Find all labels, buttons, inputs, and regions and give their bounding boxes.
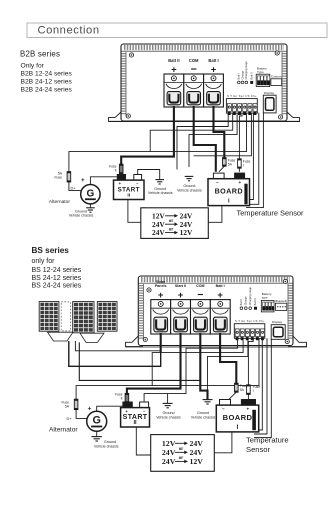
label Fuse II — [109, 165, 117, 173]
label polarity BOARD — [216, 180, 242, 185]
svg-text:Batt II: Batt II — [253, 298, 257, 305]
wire fuse I to BOARD + (BS) — [247, 394, 249, 399]
wire COM thick to ground (BS) — [200, 333, 207, 400]
svg-text:Batt I: Batt I — [237, 73, 241, 80]
svg-text:−: − — [143, 409, 146, 414]
svg-text:24V: 24V — [190, 448, 204, 457]
wire Start II + thick to fuse II — [127, 333, 181, 393]
wire display cable — [246, 113, 263, 208]
device BS solar charger unit — [126, 276, 308, 347]
svg-text:Vehicle chassis: Vehicle chassis — [177, 189, 202, 193]
label Ground Vehicle chassis (START I) — [148, 187, 173, 195]
svg-text:I: I — [253, 389, 254, 393]
svg-text:B2B 24-24 series: B2B 24-24 series — [21, 87, 73, 94]
LED indicators — [238, 81, 254, 84]
LED indicators (BS) — [240, 307, 257, 310]
wire fuse to D+ alternator (BS) — [76, 410, 87, 419]
svg-text:I: I — [237, 424, 239, 431]
svg-text:COM: COM — [189, 58, 199, 63]
svg-text:+: + — [247, 406, 250, 411]
svg-text:Fuse: Fuse — [253, 385, 261, 389]
device B2B charger unit — [109, 44, 301, 122]
svg-text:S T Gn Syn I/S Ch+: S T Gn Syn I/S Ch+ — [235, 319, 265, 323]
ground START I (vehicle chassis) — [155, 180, 164, 184]
wire START to voltage table — [128, 200, 141, 223]
wire temp sensor wire a — [248, 113, 253, 200]
svg-text:Charge: Charge — [240, 70, 244, 79]
label terminals Solar Panels / Start II / COM / Batt I — [155, 280, 225, 301]
svg-text:5A: 5A — [240, 388, 245, 392]
wire alternator ground stem — [89, 204, 91, 208]
wire START minus to ground I — [138, 170, 160, 180]
svg-text:Alternator: Alternator — [49, 199, 71, 205]
svg-text:Connection: Connection — [38, 25, 100, 37]
svg-text:BS 12-24 series: BS 12-24 series — [32, 267, 82, 274]
alternator G (B2B) (generator G) — [81, 185, 100, 204]
fuse F-alt 5A — [67, 172, 71, 182]
svg-text:Display: Display — [264, 91, 275, 95]
wire solar plus to terminal — [69, 334, 161, 366]
ground alternator (vehicle chassis) — [86, 208, 95, 212]
ground COM chassis (vehicle chassis) — [185, 176, 194, 180]
svg-text:12V: 12V — [162, 439, 176, 448]
svg-text:12V: 12V — [180, 228, 193, 237]
svg-text:Vehicle chassis: Vehicle chassis — [148, 191, 173, 195]
svg-text:Fuse: Fuse — [243, 159, 251, 163]
ground START (BS) (vehicle chassis) — [163, 403, 173, 407]
label Ground Vehicle chassis (START (BS)) — [156, 411, 181, 419]
solar panel P3 — [97, 302, 117, 332]
label polarity START (BS) — [125, 409, 146, 414]
label Ground Vehicle chassis (COM chassis (BS)) — [191, 411, 216, 419]
battery BOARD I — [208, 173, 250, 205]
svg-text:Batt I: Batt I — [216, 284, 225, 288]
svg-text:BOARD: BOARD — [215, 187, 243, 196]
svg-text:START: START — [118, 186, 140, 193]
svg-text:12V: 12V — [190, 457, 204, 466]
svg-text:Vehicle chassis: Vehicle chassis — [191, 415, 216, 419]
label B2B series list — [20, 50, 72, 94]
label BS series list — [32, 246, 82, 290]
solar panel P2 — [73, 302, 94, 333]
svg-text:Type: Type — [257, 70, 264, 74]
wire strip pin3 to ground COM (BS) — [208, 338, 248, 390]
svg-text:Charge: Charge — [244, 296, 248, 305]
svg-text:Fuse: Fuse — [54, 176, 62, 180]
wire strip pin1 to ground (BS) — [168, 338, 238, 393]
label Fuse 5A (board) — [228, 158, 236, 166]
wire fuse 5A diag to BOARD (BS) — [229, 392, 236, 399]
terminal block Batt II — [164, 74, 184, 107]
svg-text:Vehicle chassis: Vehicle chassis — [94, 445, 119, 449]
solar panel P1 — [39, 302, 59, 332]
junction box solar A — [48, 332, 74, 341]
wire BOARD to voltage table — [208, 206, 222, 223]
svg-text:Batt I: Batt I — [239, 299, 243, 306]
wire START to voltage table (BS) — [136, 427, 150, 455]
svg-text:Start II: Start II — [175, 284, 186, 288]
svg-text:−: − — [216, 180, 219, 185]
svg-text:Vehicle chassis: Vehicle chassis — [69, 214, 94, 218]
svg-text:I: I — [243, 163, 244, 167]
svg-text:24V: 24V — [162, 448, 176, 457]
terminal block Batt I (BS) — [210, 300, 230, 334]
label Fuse I — [243, 159, 251, 167]
svg-text:Batt II: Batt II — [249, 72, 253, 79]
svg-text:Sensor: Sensor — [246, 445, 271, 454]
svg-text:D+: D+ — [67, 416, 73, 421]
ground COM chassis (BS) (vehicle chassis) — [203, 400, 213, 404]
label LED names (BS, rotated) — [239, 287, 257, 306]
fuse F-start II (BS) — [125, 393, 129, 402]
label Fuse 5A (BS alternator) — [61, 401, 69, 409]
wire temp sensor wire a (BS) — [256, 338, 262, 430]
svg-text:Batt I: Batt I — [208, 58, 218, 63]
label polarity START — [119, 181, 140, 186]
svg-text:B2B series: B2B series — [20, 50, 60, 59]
svg-text:Batt II: Batt II — [168, 58, 179, 63]
label Battery Type — [257, 67, 267, 74]
fuse F-start II — [119, 164, 123, 174]
wire fuse to D+ alternator — [69, 182, 81, 191]
DIP switch battery type (BS) — [261, 300, 274, 312]
svg-text:−: − — [197, 289, 203, 301]
fuse F-alt 5A (BS) — [74, 399, 78, 409]
wire display cable (BS) — [254, 339, 271, 437]
DIP switch battery type — [256, 74, 270, 86]
svg-text:+: + — [88, 406, 92, 413]
label Battery type (BS) — [262, 292, 272, 299]
wire Batt I + thick to fuse 5A — [214, 106, 225, 158]
header box Connection — [27, 23, 327, 38]
svg-text:Custom: Custom — [271, 75, 282, 79]
wire BOARD to voltage table (BS) — [214, 432, 232, 453]
svg-text:+: + — [239, 180, 242, 185]
svg-text:+: + — [125, 409, 128, 414]
wire strip pin2 sense (BS) — [152, 338, 243, 385]
svg-text:Temperature: Temperature — [246, 435, 289, 444]
wire alternator + to START (BS) — [97, 406, 123, 411]
wire strip pin3 to ground COM — [189, 113, 237, 167]
temperature sensor bar (BS) — [252, 410, 256, 430]
wire solar panel terminal thick — [160, 333, 162, 352]
wire solar bus upper — [75, 341, 161, 351]
control terminal strip — [226, 99, 257, 115]
wire Batt I + thick to fuse 5A (BS) — [220, 333, 236, 383]
svg-text:Temperature Sensor: Temperature Sensor — [237, 209, 304, 218]
wire strip pin4 to fuse I — [239, 113, 242, 159]
svg-text:+: + — [81, 177, 85, 184]
wire fuse 5A diag to BOARD — [219, 166, 224, 172]
placeholder additional panel (dashed) — [61, 302, 70, 331]
svg-text:S T Gn Syn I/S Ch+: S T Gn Syn I/S Ch+ — [227, 94, 257, 98]
connector Display port (BS) — [271, 325, 285, 340]
svg-text:or: or — [179, 456, 183, 461]
terminal block COM (BS) — [191, 300, 211, 334]
svg-text:Bluetooth: Bluetooth — [275, 299, 287, 303]
alternator G (BS) (generator G) — [87, 411, 107, 431]
svg-text:24V: 24V — [152, 228, 165, 237]
wire temp sensor wire b — [246, 113, 259, 205]
svg-text:5A: 5A — [65, 405, 70, 409]
wire strip pin6 sense COM — [194, 113, 252, 156]
svg-text:BOARD: BOARD — [223, 413, 253, 422]
terminal block Solar Panels — [151, 300, 171, 334]
fuse F-board 5A — [223, 158, 227, 167]
svg-text:BS series: BS series — [32, 246, 70, 255]
svg-text:B2B 12-24 series: B2B 12-24 series — [21, 71, 73, 78]
wire alternator ground stem (BS) — [96, 431, 98, 436]
svg-text:BS 24-24 series: BS 24-24 series — [32, 283, 82, 290]
wire START minus to ground (BS) — [144, 394, 168, 404]
voltage conversion table (BS) — [151, 435, 215, 472]
label Fuse II (BS) — [115, 393, 123, 401]
svg-text:type: type — [262, 296, 268, 300]
svg-text:B2B 24-12 series: B2B 24-12 series — [21, 79, 73, 86]
svg-text:Display: Display — [272, 320, 283, 324]
svg-text:BS 24-12 series: BS 24-12 series — [32, 275, 82, 282]
wire alternator + to START — [90, 177, 117, 185]
ground alternator (BS) (vehicle chassis) — [92, 437, 102, 441]
svg-text:24V: 24V — [162, 457, 176, 466]
wire temp sensor wire b (BS) — [254, 338, 267, 434]
wire strip pin5 D+ line — [69, 113, 247, 172]
label Temperature Sensor (BS) — [246, 435, 289, 454]
terminal block Batt I — [204, 74, 224, 107]
svg-text:G: G — [87, 188, 95, 199]
wire fuse I to BOARD + — [238, 168, 240, 172]
wire strip pin4 to fuse I (BS) — [248, 338, 253, 385]
label terminals Batt II / COM / Batt I — [168, 58, 218, 76]
svg-text:Ground: Ground — [104, 440, 116, 444]
svg-text:Alternator: Alternator — [49, 427, 78, 434]
label Ground Vehicle chassis (COM chassis) — [177, 184, 202, 192]
svg-text:II: II — [121, 397, 123, 401]
junction box solar B — [80, 333, 104, 342]
svg-text:II: II — [115, 169, 117, 173]
fuse F-board I (BS) — [247, 385, 251, 395]
svg-text:Vehicle chassis: Vehicle chassis — [156, 415, 181, 419]
button Custom — [271, 75, 282, 86]
label 5A Fuse — [54, 172, 62, 180]
label Ground Vehicle chassis (alternator) — [69, 209, 94, 217]
label polarity BOARD (BS) — [222, 406, 250, 411]
label Fuse I (BS) — [253, 385, 261, 393]
svg-text:5A: 5A — [228, 162, 233, 166]
label Ground Vehicle chassis (alternator BS) — [94, 440, 119, 449]
wire COM thick to BOARD minus — [194, 106, 216, 172]
wire strip pin1 to ground I — [177, 113, 228, 170]
terminal block COM — [184, 74, 204, 107]
fuse F-board I — [238, 159, 242, 168]
wire Batt II + thick to fuse II — [121, 106, 174, 164]
connector Bluetooth — [275, 299, 287, 311]
control terminal strip (BS) — [234, 324, 264, 341]
svg-text:Charging stage: Charging stage — [248, 287, 252, 306]
connector Display port — [263, 95, 276, 113]
svg-text:only for: only for — [32, 258, 56, 265]
fuse F-board 5A (BS) — [235, 383, 239, 392]
wire strip pin2 sense — [150, 113, 233, 152]
svg-text:−: − — [222, 407, 225, 412]
battery BOARD I (BS) — [216, 400, 258, 432]
svg-text:or: or — [169, 227, 173, 232]
label Fuse 5A (BS board) — [240, 384, 248, 392]
svg-text:D+: D+ — [71, 185, 77, 190]
battery START II (BS) — [121, 402, 150, 427]
svg-text:G: G — [92, 414, 100, 426]
label LED names (rotated) — [237, 61, 254, 80]
svg-text:II: II — [133, 420, 137, 426]
svg-text:or: or — [169, 219, 173, 224]
svg-text:Charging stage: Charging stage — [244, 61, 248, 80]
svg-text:COM: COM — [196, 284, 204, 288]
svg-text:24V: 24V — [190, 439, 204, 448]
svg-text:Only for: Only for — [21, 62, 45, 69]
terminal block Start II — [171, 300, 191, 334]
voltage conversion table (B2B) — [141, 208, 209, 239]
svg-text:Panels: Panels — [155, 284, 167, 288]
wire solar minus to COM ground — [79, 342, 200, 380]
battery START II — [114, 175, 145, 200]
temperature sensor bar (B2B) — [244, 184, 247, 205]
wire strip pin5 D+ line (BS) — [76, 338, 259, 399]
svg-text:or: or — [179, 447, 183, 452]
